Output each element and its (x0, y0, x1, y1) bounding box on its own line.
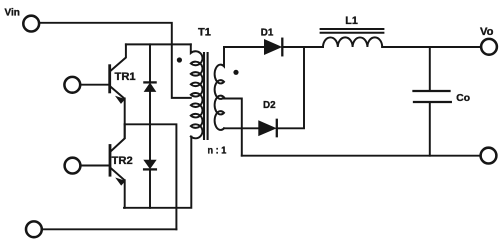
wire output return rail (242, 155, 481, 157)
svg-text:L1: L1 (345, 15, 358, 27)
diode D2 (259, 120, 277, 136)
wire D2 cathode up to D1 node (277, 47, 304, 128)
wire secondary top to D1 (224, 46, 265, 48)
wire Co branch (429, 47, 431, 156)
diode D1 (265, 39, 283, 56)
terminal Vin+ (23, 16, 39, 32)
svg-text:Vo: Vo (480, 26, 494, 38)
capacitor Co (414, 91, 451, 102)
transformer core (203, 53, 205, 139)
wire L1 to Vo (382, 46, 481, 48)
phase dot secondary (233, 70, 238, 75)
wire midpoint rail (125, 124, 177, 229)
wire TR1 collector rail (126, 43, 191, 45)
wire TR2 base (81, 165, 109, 167)
svg-text:T1: T1 (198, 26, 211, 38)
terminal Vin- (26, 221, 42, 237)
transformer T1 secondary winding (215, 47, 224, 130)
terminal Vo+ (481, 39, 497, 55)
svg-text:TR1: TR1 (115, 71, 136, 83)
wire Vin- bottom rail (42, 228, 177, 230)
transistor TR1 (110, 44, 126, 138)
wire TR2 emitter rail (124, 137, 191, 208)
svg-text:n : 1: n : 1 (208, 146, 227, 157)
terminal TR1 base (64, 77, 80, 93)
svg-text:D1: D1 (261, 28, 274, 39)
wire D1 cathode to L1 (282, 46, 323, 48)
diode across TR2 (144, 124, 156, 208)
transistor TR2 (110, 124, 125, 208)
terminal TR2 base (65, 158, 81, 174)
inductor L1 core (321, 28, 384, 30)
diode across TR1 (144, 44, 155, 124)
phase dot primary (177, 57, 182, 62)
terminal Vo- (481, 148, 497, 164)
wire Vin+ to primary centre tap (39, 23, 191, 98)
svg-text:D2: D2 (263, 100, 276, 111)
wire TR1 base (81, 84, 109, 86)
inductor L1 winding (323, 37, 382, 47)
svg-text:Vin: Vin (5, 7, 20, 18)
svg-text:TR2: TR2 (112, 155, 133, 167)
wire secondary centre tap to output return (224, 99, 242, 156)
wire secondary bottom to D2 (224, 127, 259, 129)
transformer T1 primary winding (191, 44, 203, 138)
svg-text:Co: Co (456, 93, 470, 104)
